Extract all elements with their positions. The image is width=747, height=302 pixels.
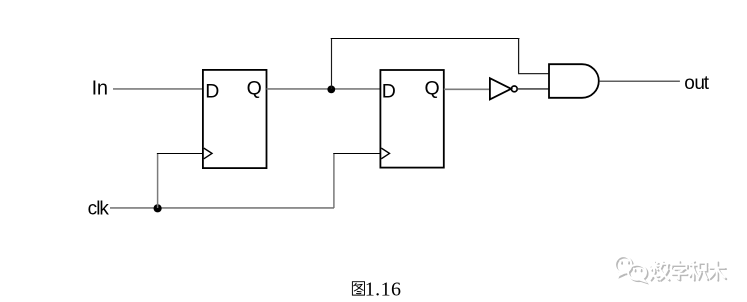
wire feedback top horizontal (331, 38, 520, 40)
wire clk branch 2 horizontal to U2 clock (333, 153, 380, 155)
wire clk branch 2 vertical (333, 153, 335, 208)
wire In to FF1 D (113, 88, 203, 90)
wire AND output to out (599, 80, 680, 82)
wire Q2 to inverter (444, 88, 490, 90)
svg-text:Q: Q (425, 77, 440, 99)
svg-text:In: In (92, 78, 108, 100)
inverter U3 bubble (511, 86, 517, 92)
watermark shadow layer (617, 258, 727, 283)
svg-text:Q: Q (247, 77, 262, 99)
wire feedback vertical down to AND input (518, 38, 520, 74)
flip-flop U2 clock wedge (381, 148, 389, 159)
wire clk horizontal (110, 207, 334, 209)
watermark white layer (615, 256, 725, 281)
junction node A dot (327, 86, 335, 94)
flip-flop U1 clock wedge (204, 148, 212, 159)
svg-text:1.16: 1.16 (365, 278, 402, 300)
wire into AND gate top input (518, 73, 550, 75)
wire feedback vertical up from node A (331, 38, 333, 89)
wire inverter to AND gate bottom input (517, 88, 549, 90)
svg-text:clk: clk (88, 199, 110, 220)
wire Q1 to D2 (267, 88, 381, 90)
AND gate U4 (549, 64, 599, 98)
svg-text:D: D (382, 81, 396, 103)
caption glyph 图 (352, 282, 364, 295)
inverter U3 triangle (490, 78, 511, 99)
wire clk branch 1 horizontal to U1 clock (157, 153, 203, 155)
flip-flop U2 box (380, 70, 443, 168)
wire clk branch 1 vertical (157, 153, 159, 208)
flip-flop U1 box (203, 70, 267, 168)
junction node B dot on clk (154, 204, 162, 212)
svg-text:out: out (684, 73, 710, 94)
svg-text:D: D (205, 81, 219, 103)
